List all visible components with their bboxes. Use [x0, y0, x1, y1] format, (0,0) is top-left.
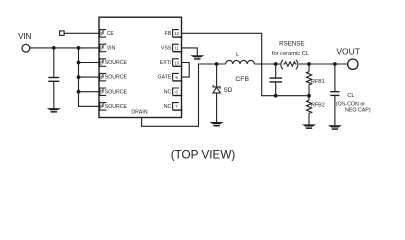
node RFB junction: [307, 94, 311, 98]
ground SD: [210, 122, 224, 127]
capacitor CFB: [269, 78, 282, 82]
svg-text:VSS: VSS: [161, 46, 172, 52]
svg-text:12: 12: [174, 31, 179, 36]
node CIN junction: [52, 46, 56, 50]
node CFB top: [274, 62, 278, 66]
node pin3 junction: [77, 61, 81, 65]
pin 8 NC: [164, 88, 183, 96]
svg-text:NC: NC: [164, 104, 172, 110]
svg-text:11: 11: [174, 46, 179, 51]
wire RSENSE to VOUT: [299, 63, 348, 65]
pin 3 SOURCE: [99, 59, 128, 67]
node pin5 junction: [77, 90, 81, 94]
ground RFB2: [302, 124, 316, 128]
wire CE terminal to pin 1: [64, 32, 99, 34]
wire L to RSENSE: [254, 63, 280, 65]
node SD junction: [215, 62, 219, 66]
wire SD to ground: [216, 93, 218, 122]
wire EXT to GATE: [182, 63, 190, 78]
ground CIN: [47, 108, 61, 113]
svg-text:EXT/: EXT/: [160, 60, 172, 66]
svg-text:RFB2: RFB2: [311, 103, 325, 109]
svg-text:for ceramic CL: for ceramic CL: [272, 51, 309, 57]
pin 11 VSS: [161, 44, 182, 52]
svg-text:FB: FB: [165, 31, 172, 37]
svg-text:DRAIN: DRAIN: [131, 110, 147, 116]
pin 1 CE: [99, 30, 114, 37]
node CL top: [333, 62, 337, 66]
capacitor CIN: [48, 78, 59, 82]
wire CFB top: [275, 64, 277, 78]
svg-text:SOURCE: SOURCE: [105, 75, 128, 81]
ground VSS: [190, 55, 204, 60]
pin 4 SOURCE: [99, 73, 128, 81]
svg-text:RSENSE: RSENSE: [279, 40, 304, 47]
svg-text:SOURCE: SOURCE: [105, 60, 128, 66]
VIN terminal: [22, 44, 30, 52]
pin 12 FB: [165, 30, 183, 37]
svg-text:RFB1: RFB1: [311, 79, 325, 85]
pin 9 GATE: [158, 73, 183, 81]
svg-text:VIN: VIN: [18, 32, 32, 41]
node RFB1 top: [307, 62, 311, 66]
wire CL top: [334, 64, 336, 91]
CE terminal square: [60, 31, 65, 36]
wire CFB bottom: [275, 83, 277, 96]
diode SD (schottky): [213, 85, 221, 93]
svg-text:VOUT: VOUT: [336, 46, 360, 56]
resistor RFB2: [306, 96, 311, 125]
svg-text:SD: SD: [224, 87, 233, 94]
svg-text:VIN: VIN: [107, 46, 116, 52]
wire CIN top: [53, 48, 55, 77]
node pin4 junction: [77, 75, 81, 79]
inductor L: [226, 60, 255, 64]
IC U1 DC/DC controller body: [99, 17, 182, 117]
wire CL bottom: [334, 96, 336, 126]
svg-text:SOURCE: SOURCE: [105, 104, 128, 110]
node VIN bus junction: [77, 46, 81, 50]
svg-text:SOURCE: SOURCE: [105, 89, 128, 95]
wire stub pin 5: [79, 91, 100, 93]
svg-text:CE: CE: [107, 31, 115, 37]
pin 7 NC: [164, 103, 183, 111]
wire FB pin12 to feedback node: [182, 33, 310, 95]
svg-text:NEO CAP): NEO CAP): [345, 107, 371, 113]
svg-text:NC: NC: [164, 89, 172, 95]
wire CIN bottom: [53, 82, 55, 108]
wire DRAIN to switch node: [142, 64, 226, 126]
wire stub pin 4: [79, 76, 100, 78]
pin 6 SOURCE: [99, 103, 128, 111]
wire stub pin 3: [79, 62, 100, 64]
svg-text:L: L: [236, 52, 239, 58]
svg-text:10: 10: [174, 60, 179, 65]
capacitor CL: [330, 92, 339, 96]
svg-text:GATE: GATE: [158, 75, 172, 81]
resistor RSENSE (optional, in parentheses): [281, 60, 298, 69]
resistor RFB1: [306, 64, 311, 96]
wire VIN to pin 2: [30, 47, 99, 49]
pin 2 VIN: [99, 44, 116, 52]
wire SD branch: [216, 64, 218, 86]
wire VSS to ground: [182, 48, 198, 56]
pin 10 EXT: [160, 59, 183, 67]
svg-text:CFB: CFB: [235, 76, 249, 83]
node CFB bottom: [274, 94, 278, 98]
svg-text:(TOP VIEW): (TOP VIEW): [171, 148, 236, 161]
pin 5 SOURCE: [99, 88, 128, 96]
wire VIN bus vertical: [79, 48, 100, 106]
ground CL: [328, 125, 342, 130]
svg-text:CL: CL: [347, 93, 355, 99]
VOUT terminal: [348, 59, 358, 69]
